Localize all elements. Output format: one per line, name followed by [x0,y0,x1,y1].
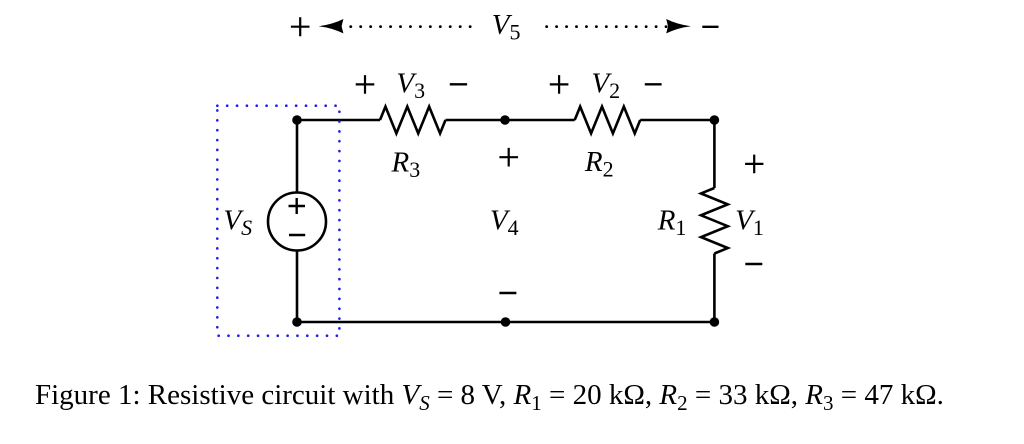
label − (V2) [645,83,662,85]
wire left lower (source to node F) [296,251,299,323]
arrowhead right (V5) [666,19,691,33]
wire top-right (R2 to node C) [640,119,714,122]
node F (bottom-left) [292,317,302,327]
label + (V1) [745,155,763,174]
label − (V5, right) [702,26,718,28]
wire top-middle (R3 to R2 through node B) [446,119,575,122]
svg-text:V2: V2 [591,67,620,103]
label + (V5 annotation, left) [291,17,310,36]
wire top-left (node A to R3) [297,119,380,122]
arrowhead left (V5) [319,19,344,33]
svg-text:R1: R1 [657,204,687,240]
label − (V4) [499,292,516,294]
wire right upper (node C to R1) [713,120,716,188]
svg-text:R2: R2 [584,146,614,182]
svg-text:V1: V1 [735,204,764,240]
node D (bottom-right) [710,317,720,327]
dotted source boundary box [217,106,339,336]
label − (V1) [745,263,762,265]
label + (V3) [356,75,375,94]
label + (V2) [550,75,569,94]
wire bottom (node D to node F) [297,321,714,324]
dotted measurement line right (V5) [547,25,667,28]
resistor R3 [380,107,446,134]
voltage source VS [268,193,326,251]
svg-text:R3: R3 [391,146,421,182]
label + (V4) [499,148,518,167]
resistor R2 [575,107,641,134]
resistor R1 [701,188,728,254]
svg-text:V3: V3 [396,67,425,103]
dotted measurement line left (V5) [351,25,471,28]
wire left upper (node A to source) [296,120,299,193]
node C (top-right) [710,115,720,125]
svg-text:V5: V5 [492,9,521,45]
node A (top-left) [292,115,302,125]
svg-text:VS: VS [223,205,252,241]
node B (top-middle) [500,115,510,125]
node E (bottom-middle) [501,317,511,327]
svg-text:Figure 1: Resistive circuit wi: Figure 1: Resistive circuit with VS = 8 … [35,379,944,415]
label − (V3) [450,83,467,85]
svg-text:V4: V4 [490,205,519,241]
wire right lower (R1 to node D) [713,254,716,323]
